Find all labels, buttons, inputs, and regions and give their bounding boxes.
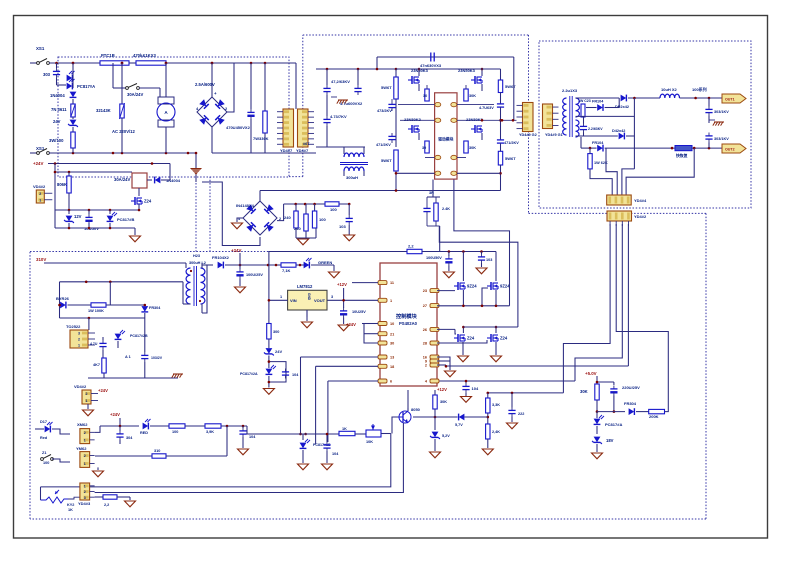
svg-text:47,2/63KV: 47,2/63KV (331, 79, 350, 84)
svg-text:1K: 1K (342, 427, 347, 431)
svg-text:FR104: FR104 (592, 100, 604, 104)
svg-text:3R: 3R (429, 191, 434, 195)
svg-text:30K: 30K (440, 400, 447, 404)
svg-text:100: 100 (319, 217, 326, 222)
svg-text:1: 1 (84, 484, 86, 488)
svg-text:310V: 310V (36, 257, 46, 262)
svg-text:5,2V: 5,2V (442, 434, 450, 438)
svg-text:100U/25V: 100U/25V (246, 273, 263, 277)
svg-text:26: 26 (423, 328, 427, 332)
svg-text:RED: RED (140, 431, 148, 435)
svg-text:2: 2 (78, 338, 80, 342)
svg-text:9Z24: 9Z24 (500, 284, 510, 289)
svg-text:GREEN: GREEN (318, 260, 332, 265)
svg-text:303/1KV: 303/1KV (714, 137, 729, 141)
svg-text:H23: H23 (193, 254, 200, 258)
svg-text:驱动模块: 驱动模块 (438, 137, 453, 142)
svg-text:28: 28 (423, 342, 427, 346)
svg-text:8050: 8050 (411, 407, 421, 412)
svg-text:300: 300 (273, 330, 279, 334)
svg-text:2: 2 (84, 490, 86, 494)
svg-text:104: 104 (332, 452, 339, 456)
svg-text:30A/24V: 30A/24V (127, 92, 144, 97)
svg-text:FR304: FR304 (149, 306, 161, 310)
svg-text:7N 3611: 7N 3611 (51, 107, 67, 112)
svg-text:PTC1B: PTC1B (101, 53, 115, 58)
svg-text:1: 1 (84, 438, 86, 442)
svg-text:7W330K: 7W330K (253, 136, 269, 141)
svg-text:470U450VX2: 470U450VX2 (226, 125, 251, 130)
svg-text:240: 240 (284, 215, 291, 220)
svg-text:222: 222 (518, 412, 524, 416)
svg-text:+12V: +12V (437, 387, 447, 392)
svg-text:KY2: KY2 (67, 503, 74, 507)
svg-text:PS402A0: PS402A0 (399, 321, 418, 326)
svg-text:2.2/63KV: 2.2/63KV (588, 127, 603, 131)
svg-text:YD4#9 G1: YD4#9 G1 (545, 133, 563, 137)
svg-text:21: 21 (390, 332, 394, 336)
svg-text:VD4#2: VD4#2 (33, 184, 46, 189)
svg-text:300uH L2: 300uH L2 (189, 261, 206, 265)
svg-text:YD4#3: YD4#3 (78, 501, 91, 506)
svg-text:303/1KV: 303/1KV (714, 110, 729, 114)
svg-text:YD4#9 G2: YD4#9 G2 (519, 133, 537, 137)
svg-text:13: 13 (390, 356, 394, 360)
svg-text:Red: Red (40, 436, 48, 440)
svg-text:YD4#2: YD4#2 (634, 214, 647, 219)
svg-text:1W 100K: 1W 100K (88, 309, 104, 313)
svg-text:D42x42: D42x42 (612, 129, 625, 133)
svg-text:快恢复: 快恢复 (676, 153, 688, 158)
svg-text:YD4#7: YD4#7 (280, 148, 293, 153)
svg-text:OUT2: OUT2 (725, 148, 735, 152)
svg-text:VD4#2: VD4#2 (74, 384, 87, 389)
svg-text:PC817#B: PC817#B (117, 217, 134, 222)
svg-text:303: 303 (43, 72, 51, 77)
svg-text:PC817#2A: PC817#2A (240, 372, 258, 376)
svg-text:YD4#7: YD4#7 (296, 148, 309, 153)
svg-text:2.4K: 2.4K (442, 207, 450, 211)
svg-text:473/2KV: 473/2KV (377, 109, 392, 113)
svg-text:1N4004: 1N4004 (50, 93, 65, 98)
svg-text:2,4K: 2,4K (492, 430, 500, 434)
svg-text:2: 2 (84, 454, 86, 458)
svg-text:100: 100 (330, 207, 337, 212)
svg-text:AC 220V/12: AC 220V/12 (112, 129, 135, 134)
svg-text:2.2u1X3: 2.2u1X3 (562, 88, 578, 93)
svg-text:300uH: 300uH (346, 175, 358, 180)
svg-text:+24V: +24V (33, 161, 43, 166)
svg-text:23N50K3: 23N50K3 (404, 117, 422, 122)
svg-text:27: 27 (423, 304, 427, 308)
svg-text:+24V: +24V (98, 388, 108, 393)
svg-text:6: 6 (390, 380, 392, 384)
svg-text:103: 103 (339, 224, 346, 229)
svg-text:104: 104 (292, 373, 299, 377)
svg-text:9Z24: 9Z24 (467, 284, 477, 289)
svg-text:30K: 30K (469, 94, 476, 98)
svg-text:30: 30 (423, 94, 427, 98)
svg-text:2: 2 (39, 192, 41, 196)
svg-text:3: 3 (84, 496, 86, 500)
svg-text:310: 310 (154, 449, 160, 453)
svg-text:XS1: XS1 (36, 46, 45, 51)
svg-text:1K: 1K (68, 508, 73, 512)
svg-text:5W6T: 5W6T (381, 158, 392, 163)
svg-text:LM7812: LM7812 (297, 284, 313, 289)
svg-text:5W6T: 5W6T (381, 85, 392, 90)
svg-text:5W6T: 5W6T (505, 156, 516, 161)
svg-text:30A/24V: 30A/24V (114, 177, 131, 182)
svg-text:IN4148X4: IN4148X4 (236, 203, 255, 208)
svg-text:GND: GND (307, 293, 311, 301)
svg-text:A 1: A 1 (125, 355, 131, 359)
svg-text:+: + (214, 91, 217, 96)
svg-text:5,7V: 5,7V (455, 423, 463, 427)
svg-text:#6T: #6T (303, 142, 310, 146)
svg-text:4K7: 4K7 (93, 363, 100, 367)
svg-text:304: 304 (126, 436, 133, 440)
svg-text:471/2KV: 471/2KV (376, 143, 391, 147)
svg-text:BYR26: BYR26 (56, 296, 70, 301)
svg-text:1: 1 (39, 198, 41, 202)
svg-text:FR104X2: FR104X2 (212, 255, 230, 260)
svg-text:10K: 10K (366, 440, 373, 444)
svg-text:470k&1KX3: 470k&1KX3 (133, 53, 156, 58)
svg-text:1: 1 (390, 299, 392, 303)
svg-text:3: 3 (331, 295, 333, 299)
svg-text:1: 1 (280, 295, 282, 299)
svg-text:2,2: 2,2 (104, 503, 109, 507)
svg-text:103: 103 (486, 258, 492, 262)
svg-text:18: 18 (390, 365, 394, 369)
svg-text:控制模块: 控制模块 (396, 312, 418, 320)
svg-text:Z24: Z24 (144, 199, 152, 204)
svg-text:30: 30 (390, 342, 394, 346)
svg-text:104: 104 (249, 435, 256, 439)
svg-text:XM62: XM62 (77, 422, 88, 427)
svg-text:24V: 24V (53, 119, 61, 124)
svg-text:1: 1 (86, 399, 88, 403)
svg-text:VOUT: VOUT (314, 298, 326, 303)
svg-text:100系列: 100系列 (692, 86, 707, 92)
svg-text:VIN: VIN (290, 298, 297, 303)
svg-text:Z24: Z24 (467, 336, 475, 341)
svg-text:3W/100: 3W/100 (49, 138, 64, 143)
svg-text:30K: 30K (580, 389, 588, 394)
svg-text:3,9K: 3,9K (206, 430, 214, 434)
svg-text:2,2: 2,2 (408, 244, 414, 249)
svg-text:23: 23 (423, 289, 427, 293)
svg-text:220U/25V: 220U/25V (622, 385, 640, 390)
svg-text:10: 10 (390, 322, 394, 326)
svg-text:+24V: +24V (231, 248, 241, 253)
svg-text:4.73/7KV: 4.73/7KV (330, 114, 347, 119)
svg-text:103/2V: 103/2V (151, 356, 163, 360)
svg-text:471/2KV: 471/2KV (504, 141, 519, 145)
svg-text:3: 3 (78, 332, 80, 336)
svg-text:100: 100 (43, 461, 49, 465)
svg-text:10U25V: 10U25V (352, 310, 366, 314)
svg-text:806K: 806K (57, 182, 67, 187)
svg-text:30: 30 (422, 146, 426, 150)
svg-text:4.7u600VX2: 4.7u600VX2 (340, 101, 363, 106)
svg-text:7,1K: 7,1K (282, 268, 291, 273)
svg-text:12V: 12V (74, 214, 82, 219)
svg-text:TO2522: TO2522 (66, 324, 81, 329)
svg-text:FR304: FR304 (624, 401, 637, 406)
svg-text:2.5A/600V: 2.5A/600V (195, 82, 215, 87)
svg-text:D17: D17 (40, 420, 47, 424)
svg-text:4.7U63V: 4.7U63V (479, 106, 494, 110)
svg-text:11: 11 (390, 281, 394, 285)
svg-text:100U50V: 100U50V (426, 256, 442, 260)
svg-text:+24V: +24V (110, 412, 120, 417)
svg-text:2: 2 (86, 392, 88, 396)
svg-text:30K: 30K (469, 146, 476, 150)
svg-text:1: 1 (78, 344, 80, 348)
svg-text:24V: 24V (275, 349, 282, 354)
svg-text:OUT1: OUT1 (725, 98, 735, 102)
svg-text:1: 1 (84, 462, 86, 466)
svg-text:100: 100 (172, 430, 178, 434)
svg-text:18V: 18V (606, 438, 614, 443)
svg-text:+12V: +12V (337, 282, 347, 287)
svg-text:Z24: Z24 (500, 336, 508, 341)
svg-text:3,3K: 3,3K (492, 403, 500, 407)
svg-text:PC817#A: PC817#A (605, 422, 622, 427)
svg-text:FR104: FR104 (592, 141, 604, 145)
svg-text:Z1: Z1 (42, 451, 46, 455)
svg-text:200K: 200K (649, 414, 659, 419)
svg-text:PC817#A: PC817#A (77, 84, 95, 89)
svg-text:4.7U: 4.7U (90, 342, 98, 346)
svg-text:2: 2 (425, 364, 427, 368)
svg-text:+5.0V: +5.0V (585, 371, 597, 376)
svg-text:32143K: 32143K (96, 108, 111, 113)
svg-text:2: 2 (84, 431, 86, 435)
svg-text:240: 240 (294, 226, 301, 231)
svg-text:104: 104 (472, 386, 479, 391)
svg-text:5W6T: 5W6T (505, 84, 516, 89)
svg-text:YD4#4: YD4#4 (634, 198, 647, 203)
svg-text:10uH X2: 10uH X2 (661, 87, 678, 92)
svg-text:YM62: YM62 (76, 446, 87, 451)
svg-text:1W C23: 1W C23 (578, 99, 591, 103)
